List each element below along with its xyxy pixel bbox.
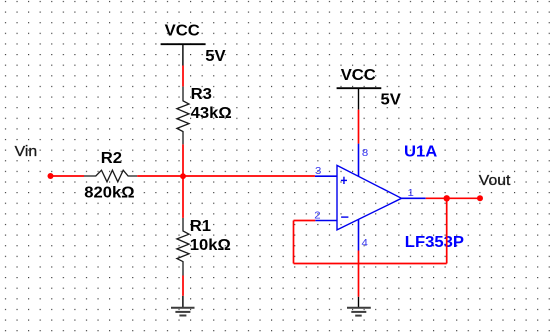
- wire output to Vout terminal: [426, 197, 480, 199]
- op-amp U1A body: [337, 165, 402, 230]
- op-amp minus sign: [341, 216, 348, 218]
- wire VCC1 to R3: [182, 66, 184, 87]
- pin 8 stub: [358, 144, 360, 177]
- wire feedback to pin 2: [294, 220, 316, 222]
- svg-text:820kΩ: 820kΩ: [84, 185, 135, 201]
- ground symbol (left): [171, 296, 195, 316]
- power VCC symbol V1 (left): [161, 23, 206, 65]
- resistor R2 symbol: [84, 170, 137, 182]
- svg-text:Vout: Vout: [479, 173, 511, 189]
- svg-text:R1: R1: [190, 218, 211, 234]
- wire feedback horizontal: [294, 263, 447, 265]
- wire VCC2 to pin 8: [358, 110, 360, 144]
- svg-text:U1A: U1A: [404, 144, 438, 160]
- wire Vin terminal to R2: [51, 175, 85, 177]
- svg-text:5V: 5V: [381, 92, 402, 108]
- resistor R3 symbol: [177, 86, 189, 144]
- op-amp plus sign: [341, 177, 347, 184]
- pin 3 stub: [315, 175, 337, 177]
- svg-text:Vin: Vin: [15, 144, 38, 160]
- wire R2 to op-amp pin 3: [137, 175, 315, 177]
- wire R1 to ground: [182, 276, 184, 296]
- svg-text:10kΩ: 10kΩ: [190, 237, 231, 253]
- junction output/feedback: [444, 195, 450, 201]
- svg-text:VCC: VCC: [341, 67, 377, 83]
- wire feedback vertical right: [446, 198, 448, 263]
- svg-text:1: 1: [408, 187, 414, 198]
- svg-text:2: 2: [314, 210, 320, 221]
- pin 1 stub: [402, 197, 426, 199]
- resistor R1 symbol: [177, 218, 189, 276]
- svg-text:43kΩ: 43kΩ: [191, 106, 232, 122]
- wire R3 to R1: [182, 144, 184, 218]
- wire feedback vertical left: [293, 221, 295, 264]
- svg-text:5V: 5V: [205, 49, 226, 65]
- svg-text:3: 3: [315, 166, 321, 177]
- svg-text:8: 8: [362, 148, 368, 159]
- terminal Vin: [48, 173, 54, 179]
- wire pin 4 to ground: [358, 251, 360, 297]
- power VCC symbol V2 (above op-amp): [337, 67, 382, 109]
- svg-text:LF353P: LF353P: [405, 234, 465, 250]
- svg-text:R2: R2: [101, 150, 122, 166]
- terminal Vout: [477, 195, 483, 201]
- pin 4 stub: [358, 220, 360, 251]
- pin 2 stub: [315, 220, 337, 222]
- svg-text:4: 4: [362, 237, 368, 248]
- junction R2/R3/R1: [180, 173, 186, 179]
- svg-text:VCC: VCC: [165, 23, 201, 39]
- svg-text:R3: R3: [191, 87, 212, 103]
- ground symbol (below op-amp): [347, 297, 371, 316]
